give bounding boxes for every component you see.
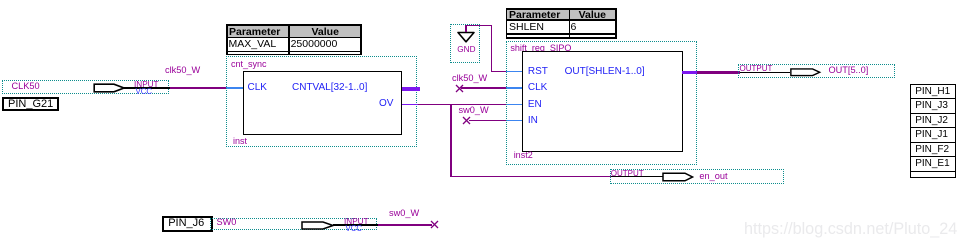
output name OUT[SHLEN-1..0] (565, 66, 645, 77)
input port SW0 dotted boundary (210, 218, 377, 231)
output port en_out dotted boundary (610, 169, 784, 184)
INPUT label (SW0) (344, 217, 369, 227)
bus stub CNTVAL (thick violet) (402, 87, 420, 91)
net label clk50_W (at shift_reg) (452, 73, 487, 83)
block body cnt_sync (243, 71, 402, 135)
bus OUT stub violet thick (682, 71, 698, 74)
pin label OV (379, 98, 393, 109)
wire EN pin stub blue (506, 104, 523, 106)
watermark (744, 220, 957, 239)
parameter table of cnt_sync (226, 24, 362, 55)
GND symbol triangle (456, 31, 476, 45)
wire gnd vertical down (491, 25, 493, 72)
net label sw0_W (source) (389, 208, 419, 218)
net connector X sw0_W (462, 116, 471, 125)
instance type label cnt_sync (231, 59, 267, 69)
OUTPUT label (en_out port) (611, 169, 644, 179)
VCC label (136, 87, 152, 96)
instance type label shift_reg_SIPO (510, 43, 571, 53)
input port CLK50 dotted boundary (2, 80, 169, 94)
bus OUT purple thick (697, 71, 740, 74)
wire port-internal OUT (740, 72, 790, 73)
input pin symbol (pentagon) SW0 (301, 221, 335, 230)
wire clk50 net purple segment (170, 87, 226, 89)
wire gnd stub vertical from symbol (465, 25, 467, 32)
net label clk50_W (at source) (165, 65, 200, 75)
input pin symbol (pentagon) CLK50 (93, 83, 126, 93)
wire RST pin stub blue (506, 71, 523, 73)
instance label inst2 (514, 150, 533, 160)
port name OUT[5..0] (829, 65, 869, 75)
wire clk50 pin stub (blue) into cnt_sync (226, 87, 244, 89)
wire gnd horizontal to RST (491, 71, 506, 73)
net label sw0_W (at shift_reg) (459, 105, 489, 115)
wire port-internal en_out (611, 176, 663, 177)
module shift_reg_SIPO dotted boundary (506, 41, 697, 165)
wire sw0 net purple (378, 224, 432, 226)
pin label RST (528, 66, 548, 77)
pin assignment table (output pins) (910, 84, 957, 100)
parameter table of shift_reg_SIPO (506, 8, 617, 38)
port name en_out (699, 171, 727, 181)
wire OV net horizontal to en_out port (450, 176, 611, 178)
wire OV net vertical branch down (450, 104, 452, 177)
block body shift_reg_SIPO (522, 51, 683, 152)
VCC label (SW0) (346, 224, 362, 233)
module cnt_sync dotted boundary (226, 56, 417, 147)
output port OUT[5..0] dotted boundary (738, 64, 895, 78)
pin label EN (528, 99, 542, 110)
net connector X clk50_W (455, 84, 464, 93)
pin assignment box PIN_J6 (162, 216, 214, 232)
GND symbol dotted boundary (450, 24, 481, 62)
output name CNTVAL[32-1..0] (292, 82, 367, 93)
wire CLK pin stub blue (506, 87, 523, 89)
pin assignment box PIN_G21 (2, 97, 60, 111)
wire port-internal SW0 (333, 224, 378, 225)
pin label IN (528, 115, 538, 126)
net connector X sw0_W (source) (430, 220, 439, 229)
wire gnd horizontal top (465, 25, 492, 27)
port name label SW0 (217, 217, 237, 227)
INPUT label (134, 80, 159, 90)
output pin symbol (pentagon) OUT (789, 68, 822, 77)
wire port-internal CLK50 (124, 87, 170, 89)
GND label (457, 45, 475, 55)
wire OV stub violet (402, 104, 418, 106)
pin label CLK (528, 82, 547, 93)
port name label CLK50 (12, 81, 40, 91)
output pin symbol (pentagon) en_out (662, 172, 694, 182)
wire clk50_W to CLK pin (461, 87, 506, 89)
wire sw0_W to IN pin (469, 120, 506, 122)
OUTPUT label (OUT port) (740, 64, 773, 74)
wire IN pin stub blue (506, 120, 523, 122)
pin label CLK (248, 82, 267, 93)
wire OV net purple horizontal to EN (418, 104, 506, 106)
instance label inst (233, 136, 247, 146)
